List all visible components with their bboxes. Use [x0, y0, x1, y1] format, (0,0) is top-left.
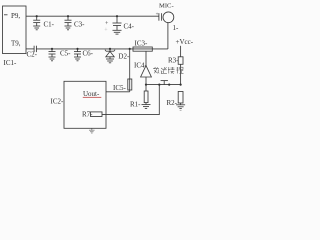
svg-text:+: +	[105, 21, 109, 27]
svg-text:+Vcc-: +Vcc-	[176, 38, 194, 46]
svg-text:MIC-: MIC-	[159, 3, 174, 10]
svg-text:+: +	[104, 28, 108, 34]
wire P9 top rail	[26, 15, 159, 17]
wire T9 rail	[26, 48, 34, 50]
ground C6	[74, 56, 81, 58]
op-amp IC4 triangle	[141, 66, 152, 77]
resistor R2	[178, 92, 183, 104]
svg-text:IC4-: IC4-	[134, 61, 148, 69]
resistor IC3 box	[133, 47, 152, 51]
tap symbol	[161, 80, 168, 82]
capacitor C3	[67, 16, 69, 20]
ground IC2	[89, 128, 95, 133]
IC2 block	[64, 81, 106, 128]
wire IC5 to IC2	[106, 91, 130, 93]
char cheng	[177, 67, 179, 69]
junction R7 feedback	[158, 84, 160, 86]
svg-text:+: +	[156, 13, 159, 18]
ground D2	[106, 58, 114, 60]
svg-text:C5-: C5-	[60, 50, 71, 58]
resistor R7	[91, 112, 103, 117]
svg-text:Uout-: Uout-	[83, 90, 100, 98]
svg-text:IC2-: IC2-	[51, 98, 65, 106]
ground C3	[65, 25, 72, 27]
resistor IC5 box	[128, 79, 132, 90]
resistor R3	[178, 57, 183, 65]
svg-text:IC1-: IC1-	[4, 59, 18, 67]
svg-text:R1-: R1-	[130, 100, 141, 108]
svg-text:D2-: D2-	[118, 53, 130, 61]
svg-text:P9,: P9,	[11, 12, 20, 20]
diode D2	[109, 49, 111, 51]
capacitor C2 series	[33, 46, 35, 52]
wire MIC down	[167, 23, 169, 49]
char fa	[153, 68, 159, 70]
junction C1 on top rail	[36, 15, 38, 17]
junction R2	[180, 84, 182, 86]
char jie	[168, 67, 170, 74]
wire R7 out	[102, 85, 159, 115]
svg-text:C2-: C2-	[27, 51, 38, 59]
wire IC5 drop	[129, 49, 131, 92]
capacitor C5	[51, 49, 53, 52]
resistor R1	[145, 85, 147, 91]
junction C6 on T9 rail	[76, 48, 78, 50]
ground C1	[33, 25, 40, 27]
coupling plates into MIC	[158, 13, 160, 21]
underline Uout	[83, 96, 102, 99]
ground C4	[113, 29, 122, 31]
svg-text:R7-: R7-	[82, 110, 93, 118]
wire T9 rail cont	[37, 48, 168, 50]
svg-text:1-: 1-	[173, 24, 180, 32]
svg-text:C4-: C4-	[124, 23, 135, 31]
wire +Vcc drop	[180, 46, 182, 57]
junction C5 on T9 rail	[51, 48, 53, 50]
svg-text:R2-: R2-	[167, 99, 178, 107]
capacitor C4	[116, 16, 118, 23]
ground R1	[142, 104, 151, 106]
junction C3 on top rail	[67, 15, 69, 17]
svg-text:R3-: R3-	[168, 57, 179, 65]
capacitor C1	[36, 16, 38, 20]
char song	[161, 68, 163, 70]
junction C4 on top rail	[116, 15, 118, 17]
microphone MIC	[163, 12, 174, 23]
svg-text:C3-: C3-	[74, 21, 85, 29]
ground C5	[49, 56, 56, 58]
svg-text:C1-: C1-	[44, 21, 55, 29]
svg-text:T9,: T9,	[11, 40, 21, 48]
junction R1 output	[145, 84, 147, 86]
junction D2 on T9 rail	[109, 48, 111, 50]
junction tap	[168, 84, 170, 86]
svg-text:IC5-: IC5-	[113, 84, 127, 92]
label transmit interface (hand-drawn CJK strokes)	[153, 67, 184, 74]
wire bottom rail	[146, 84, 181, 86]
junction IC5 branch	[129, 48, 131, 50]
svg-text:C6-: C6-	[83, 50, 94, 58]
svg-text:IC3-: IC3-	[135, 40, 149, 48]
pin dash	[4, 14, 8, 16]
IC1 block	[3, 6, 27, 54]
capacitor C6	[77, 49, 79, 52]
ground R2	[176, 104, 185, 106]
